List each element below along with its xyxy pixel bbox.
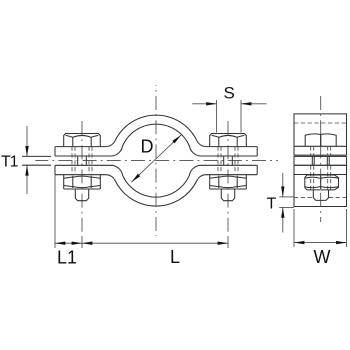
svg-text:T1: T1 bbox=[1, 154, 19, 171]
svg-text:T: T bbox=[267, 196, 277, 213]
svg-text:L1: L1 bbox=[57, 248, 77, 268]
svg-text:L: L bbox=[170, 247, 180, 267]
svg-text:S: S bbox=[224, 84, 235, 103]
svg-text:D: D bbox=[141, 137, 154, 157]
svg-text:W: W bbox=[314, 247, 331, 267]
